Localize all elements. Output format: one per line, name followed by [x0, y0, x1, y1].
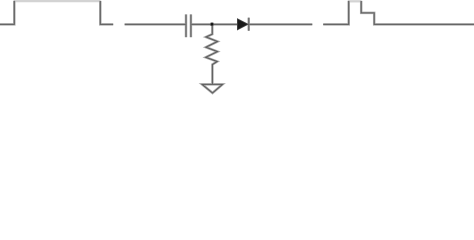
diode D1 cathode bar — [247, 18, 250, 31]
wire from input to capacitor — [125, 23, 186, 26]
capacitor C1 right plate — [190, 14, 193, 37]
resistor R1 — [206, 24, 218, 84]
wire from capacitor to diode — [192, 23, 238, 26]
output spike waveform: step down, mid level, fall to baseline — [361, 1, 474, 25]
input pulse waveform: top level (light) — [14, 0, 100, 2]
capacitor C1 left plate — [185, 14, 188, 37]
diode D1 triangle — [237, 19, 248, 30]
input pulse waveform: baseline and rising edge — [0, 1, 14, 25]
node junction dot — [210, 23, 213, 26]
output spike waveform: top level (light) — [349, 0, 362, 2]
input pulse waveform: falling edge and baseline — [100, 1, 113, 25]
ground — [202, 84, 222, 93]
output spike waveform: baseline and rising edge — [323, 1, 349, 25]
wire from diode to output — [250, 23, 313, 26]
